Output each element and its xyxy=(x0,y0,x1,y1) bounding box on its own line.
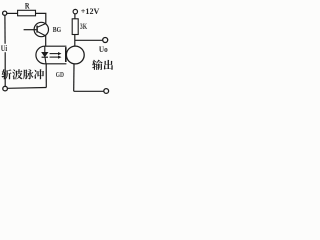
wire base stub xyxy=(24,29,37,31)
wire bottom-right horizontal xyxy=(74,90,104,92)
wire bottom-left horizontal xyxy=(8,87,47,90)
terminal output xyxy=(103,38,108,43)
transistor Q BG circle xyxy=(34,22,48,36)
terminal bottom-right xyxy=(104,89,109,94)
label 输出 output xyxy=(92,60,113,70)
terminal +12V xyxy=(73,9,77,13)
svg-text:GD: GD xyxy=(56,70,64,79)
wire xyxy=(7,12,18,14)
transistor BG base bar xyxy=(36,26,38,33)
LED triangle xyxy=(42,52,48,56)
wire photodetector emitter down xyxy=(73,64,75,92)
label 斩波脉冲 chopping pulse xyxy=(2,69,44,79)
svg-text:3K: 3K xyxy=(80,22,88,31)
light arrow upper head xyxy=(58,52,62,55)
resistor 3K xyxy=(72,19,78,35)
transistor BG collector diagonal xyxy=(38,24,46,28)
LED wire to bottom xyxy=(45,57,46,64)
wire output horizontal xyxy=(75,39,103,41)
wire Ui vertical lower xyxy=(4,52,6,86)
wire 3K to photodetector xyxy=(74,35,76,47)
transistor BG emitter diagonal xyxy=(38,32,46,36)
svg-text:+12V: +12V xyxy=(81,6,100,16)
wire xyxy=(36,13,46,24)
light arrow lower head xyxy=(58,56,62,59)
svg-text:Ui: Ui xyxy=(1,44,8,53)
optocoupler GD stadium body xyxy=(36,46,66,64)
svg-text:Uo: Uo xyxy=(99,45,108,54)
LED cathode bar xyxy=(42,56,48,58)
light arrow lower xyxy=(50,56,59,58)
wire LED cathode down xyxy=(45,64,47,88)
resistor R xyxy=(18,10,36,16)
svg-text:R: R xyxy=(25,2,30,11)
LED anode wire xyxy=(44,46,46,52)
optocoupler detector bar xyxy=(65,47,67,62)
light arrow upper xyxy=(50,53,59,55)
wire emitter down xyxy=(45,36,47,47)
terminal input bottom-left xyxy=(3,86,8,91)
optocoupler photodetector circle xyxy=(66,46,84,64)
wire +12V to 3K xyxy=(74,14,76,19)
wire Ui vertical upper xyxy=(4,15,6,43)
terminal input top-left xyxy=(3,11,7,15)
svg-text:BG: BG xyxy=(53,25,61,34)
